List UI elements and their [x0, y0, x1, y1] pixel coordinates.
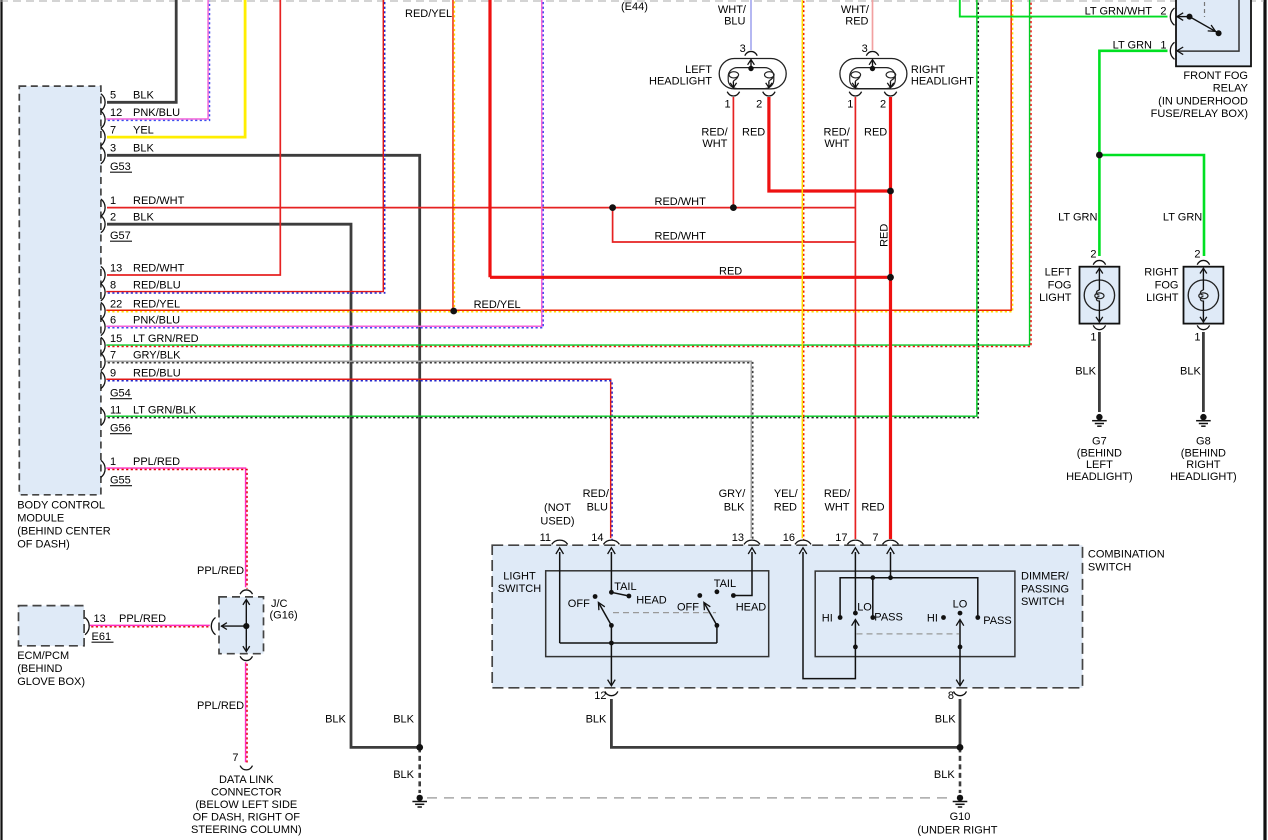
combination switch name labels [498, 549, 1165, 609]
svg-text:RED: RED [774, 502, 797, 514]
svg-text:16: 16 [783, 532, 795, 544]
svg-text:PPL/RED: PPL/RED [197, 565, 244, 577]
light switch arm2 to bottom bus [716, 625, 718, 643]
svg-text:13: 13 [94, 613, 106, 625]
svg-text:3: 3 [740, 43, 746, 55]
svg-text:(BELOW LEFT SIDE: (BELOW LEFT SIDE [195, 799, 297, 811]
wire BCM pin 15 LT GRN/RED [106, 0, 1031, 347]
svg-text:9: 9 [110, 367, 116, 379]
dashed ground bus line [427, 797, 952, 799]
data link connector pin 7 bracket [240, 766, 252, 770]
dimmer pin 8 line [956, 647, 964, 686]
light switch arm1 to bottom bus [610, 625, 612, 643]
left fog light box [1080, 267, 1120, 324]
svg-text:RED/WHT: RED/WHT [133, 262, 185, 274]
relay pin 2 arrow and contact [1177, 13, 1193, 21]
right headlight U2 symbol [840, 59, 907, 89]
ground G8 labels [1170, 436, 1237, 483]
node BLK ground junction right [957, 744, 964, 751]
right headlight U2 pin 2 bracket [884, 92, 896, 96]
page border top dashed [0, 0, 1264, 2]
dimmer pin 16 path to arm1 [803, 552, 855, 679]
wire BCM pin 9 RED/BLU to combination pin 14 [106, 379, 612, 539]
wire left headlight pin 2 RED [769, 97, 891, 191]
svg-text:8: 8 [110, 280, 116, 292]
left headlight U1 pin 3 bracket [745, 51, 757, 55]
front fog relay inner box [1176, 0, 1239, 51]
wire combination pin 8 BLK [959, 699, 962, 747]
svg-text:12: 12 [594, 690, 606, 702]
light switch mechanical linkage dashed [613, 612, 716, 614]
wire combination pin 12 BLK [611, 699, 960, 747]
wire WHT/BLU to left headlight pin 3 [750, 0, 752, 50]
wire BCM pin 6 PNK/BLU [106, 0, 543, 328]
svg-text:COMBINATION: COMBINATION [1088, 549, 1165, 561]
svg-text:22: 22 [110, 298, 122, 310]
svg-text:BLK: BLK [586, 714, 607, 726]
relay labels [1085, 6, 1249, 121]
dimmer PASS1 riser [872, 578, 874, 618]
svg-text:BLK: BLK [393, 714, 414, 726]
wire LT GRN/WHT to relay pin 2 [960, 0, 1168, 17]
PPL/RED wire labels [197, 565, 244, 712]
svg-text:RED/YEL: RED/YEL [405, 8, 452, 20]
svg-text:RED/YEL: RED/YEL [474, 299, 521, 311]
svg-text:6: 6 [110, 314, 116, 326]
svg-text:G7: G7 [1092, 436, 1107, 448]
svg-text:WHT/: WHT/ [841, 4, 870, 16]
svg-text:7: 7 [110, 125, 116, 137]
node RED/WHT junction at x733 [730, 204, 737, 211]
J/C G16 internal bus [221, 600, 250, 652]
svg-text:DIMMER/: DIMMER/ [1021, 571, 1070, 583]
svg-text:PPL/RED: PPL/RED [197, 700, 244, 712]
wire BCM pin 1 RED/WHT to headlights [107, 207, 855, 209]
svg-text:RED: RED [879, 224, 891, 247]
svg-text:1: 1 [847, 99, 853, 111]
svg-text:PPL/RED: PPL/RED [119, 613, 166, 625]
J/C top bracket [240, 590, 252, 594]
svg-text:LT GRN/RED: LT GRN/RED [133, 333, 199, 345]
svg-text:1: 1 [1090, 332, 1096, 344]
J/C left bracket [211, 618, 215, 635]
light switch inner box [546, 571, 769, 657]
right headlight U2 pin 1 bracket [849, 92, 861, 96]
svg-text:TAIL: TAIL [714, 578, 736, 590]
right fog light pin 1 bracket [1197, 325, 1209, 329]
svg-text:RED/: RED/ [583, 488, 610, 500]
left headlight U1 pin 2 bracket [763, 92, 775, 96]
BCM ground reference labels [110, 161, 132, 487]
svg-text:3: 3 [110, 143, 116, 155]
wire RED/WHT branch to dimmer [613, 208, 856, 242]
svg-text:1: 1 [1160, 40, 1166, 52]
ground G10 labels [917, 811, 997, 837]
wire ECM pin 13 PPL/RED to J/C [90, 625, 211, 626]
wire YEL/RED to combination pin 16 [802, 0, 803, 540]
wire BCM pin 13 RED/WHT [107, 0, 280, 275]
node RED/WHT junction at x612 [609, 204, 616, 211]
wire WHT/RED to right headlight pin 3 [872, 0, 874, 50]
svg-text:14: 14 [591, 532, 603, 544]
svg-text:USED): USED) [540, 516, 574, 528]
svg-text:RED: RED [845, 15, 868, 27]
svg-text:YEL: YEL [133, 125, 154, 137]
relay pin 2 bracket [1170, 8, 1174, 25]
svg-text:DATA LINK: DATA LINK [219, 774, 274, 786]
svg-text:OFF: OFF [568, 598, 590, 610]
svg-text:G10: G10 [950, 811, 971, 823]
svg-text:LT GRN: LT GRN [1163, 212, 1202, 224]
svg-text:RED/WHT: RED/WHT [655, 231, 707, 243]
left headlight labels [649, 43, 765, 150]
svg-text:HEADLIGHT: HEADLIGHT [911, 76, 974, 88]
svg-text:2: 2 [880, 99, 886, 111]
svg-text:CONNECTOR: CONNECTOR [211, 786, 282, 798]
wire RED horizontal branch [490, 276, 891, 279]
svg-text:1: 1 [110, 195, 116, 207]
wire left fog light pin 1 BLK [1098, 332, 1101, 412]
right headlight labels [824, 43, 975, 150]
svg-text:RED/BLU: RED/BLU [133, 367, 181, 379]
dashed BLK wire to ground G10 right [959, 747, 962, 793]
wire BCM pin 5 BLK [107, 0, 176, 102]
svg-text:E61: E61 [92, 631, 112, 643]
relay pin 1 arrow [1177, 47, 1183, 55]
svg-text:PASSING: PASSING [1021, 583, 1069, 595]
svg-text:(BEHIND: (BEHIND [1077, 447, 1122, 459]
wire BCM pin 7 GRY/BLK to combination pin 13 [106, 361, 752, 539]
svg-text:BLK: BLK [133, 143, 154, 155]
wire BCM pin 1 PPL/RED to J/C [106, 468, 247, 589]
svg-text:RED/YEL: RED/YEL [133, 298, 180, 310]
svg-text:1: 1 [110, 456, 116, 468]
combination pin 8 bracket [954, 691, 967, 695]
wire BCM pin 3 BLK [107, 155, 420, 747]
svg-text:7: 7 [872, 532, 878, 544]
svg-text:(BEHIND: (BEHIND [1181, 447, 1226, 459]
ECM/PCM labels [17, 613, 166, 688]
svg-text:HI: HI [822, 613, 833, 625]
svg-text:5: 5 [110, 90, 116, 102]
svg-text:RELAY: RELAY [1213, 83, 1249, 95]
fog light wire labels [1058, 212, 1202, 224]
svg-text:FOG: FOG [1155, 279, 1179, 291]
svg-text:BLU: BLU [724, 15, 745, 27]
svg-text:11: 11 [110, 404, 121, 416]
page border right [1263, 0, 1266, 840]
wire LT GRN relay pin 1 to fog lights [1099, 51, 1167, 256]
left fog light pin 1 bracket [1093, 325, 1105, 329]
svg-text:HEAD: HEAD [736, 602, 767, 614]
left fog light bulb symbol [1084, 268, 1114, 323]
wire BCM pin 7 YEL [107, 0, 245, 137]
svg-text:G53: G53 [110, 161, 131, 173]
svg-text:(IN UNDERHOOD: (IN UNDERHOOD [1158, 96, 1248, 108]
svg-text:RED/: RED/ [701, 127, 728, 139]
right fog light bulb symbol [1188, 268, 1218, 323]
light switch TAIL1-HEAD1 link [611, 592, 629, 596]
svg-text:7: 7 [232, 752, 238, 764]
svg-text:RED/WHT: RED/WHT [133, 195, 185, 207]
BCM pin brackets [101, 94, 105, 478]
svg-text:WHT/: WHT/ [718, 4, 747, 16]
svg-text:STEERING COLUMN): STEERING COLUMN) [191, 824, 302, 836]
svg-text:SWITCH: SWITCH [1021, 596, 1064, 608]
svg-text:BLK: BLK [393, 769, 414, 781]
svg-text:LT GRN/WHT: LT GRN/WHT [1085, 6, 1153, 18]
combination switch top pin labels [540, 488, 885, 544]
node RED junction y191 [887, 188, 894, 195]
dimmer arm 2 [956, 620, 964, 647]
wire BCM pin 2 BLK [107, 224, 420, 747]
ground G8 [1200, 414, 1206, 420]
svg-text:(E44): (E44) [621, 1, 648, 13]
node RED/YEL junction [450, 308, 457, 315]
svg-text:RED: RED [861, 502, 884, 514]
svg-text:7: 7 [110, 349, 116, 361]
svg-text:ECM/PCM: ECM/PCM [17, 650, 69, 662]
svg-text:3: 3 [862, 43, 868, 55]
svg-text:GRY/: GRY/ [719, 488, 747, 500]
wire BCM pin 22 RED/YEL [106, 0, 1012, 312]
top wire labels [405, 1, 648, 311]
svg-text:FRONT FOG: FRONT FOG [1183, 70, 1248, 82]
svg-text:SWITCH: SWITCH [1088, 562, 1131, 574]
svg-text:(BEHIND CENTER: (BEHIND CENTER [17, 526, 111, 538]
svg-text:2: 2 [1194, 249, 1200, 261]
light switch pin 13 line to HEAD2 [733, 552, 752, 596]
svg-text:BLK: BLK [133, 90, 154, 102]
ground G10 symbol [957, 795, 963, 801]
wire RED vertical from top [488, 0, 491, 277]
svg-text:RIGHT: RIGHT [1144, 267, 1179, 279]
combination pin 12 bracket [605, 691, 618, 695]
combination switch pin arrows at top [556, 548, 894, 554]
svg-text:G57: G57 [110, 230, 131, 242]
svg-text:2: 2 [1160, 6, 1166, 18]
svg-text:BLU: BLU [587, 502, 608, 514]
svg-text:HEADLIGHT): HEADLIGHT) [1170, 471, 1237, 483]
right fog light pin 2 bracket [1197, 260, 1209, 264]
svg-text:LO: LO [953, 599, 968, 611]
svg-text:RED/: RED/ [824, 127, 851, 139]
svg-text:RED/: RED/ [824, 488, 851, 500]
ground G10 left symbol [417, 795, 423, 801]
left headlight U1 pin 1 bracket [727, 92, 739, 96]
svg-text:FUSE/RELAY BOX): FUSE/RELAY BOX) [1151, 108, 1248, 120]
node LT GRN junction [1096, 152, 1103, 159]
svg-text:LO: LO [857, 602, 872, 614]
wire right headlight pin 2 RED down to combination pin 7 [889, 97, 892, 539]
wire left headlight pin 1 RED/WHT [732, 97, 734, 208]
svg-text:LIGHT: LIGHT [1146, 292, 1179, 304]
svg-text:11: 11 [540, 532, 551, 544]
dimmer pin 17 line to LO1 [854, 552, 856, 613]
svg-text:LT GRN: LT GRN [1113, 40, 1152, 52]
svg-text:1: 1 [1194, 332, 1200, 344]
relay pin 1 bracket [1170, 42, 1174, 59]
svg-text:(G16): (G16) [270, 610, 298, 622]
svg-text:SWITCH: SWITCH [498, 583, 541, 595]
wire BCM pin 12 PNK/BLU [106, 0, 209, 120]
left headlight U1 symbol [719, 59, 786, 89]
wire right fog light pin 1 BLK [1202, 332, 1205, 412]
svg-text:RIGHT: RIGHT [1186, 459, 1221, 471]
svg-text:G55: G55 [110, 475, 131, 487]
svg-text:OF DASH, RIGHT OF: OF DASH, RIGHT OF [193, 812, 301, 824]
svg-text:GLOVE BOX): GLOVE BOX) [17, 676, 85, 688]
right headlight U2 pin 3 bracket [866, 51, 878, 55]
svg-text:HEADLIGHT: HEADLIGHT [649, 76, 712, 88]
ECM/PCM box [19, 606, 85, 646]
svg-text:PNK/BLU: PNK/BLU [133, 107, 180, 119]
right fog light box [1184, 267, 1224, 324]
J/C G16 labels [270, 598, 298, 622]
svg-text:2: 2 [110, 212, 116, 224]
svg-text:8: 8 [948, 690, 954, 702]
light switch arm 2 [704, 602, 717, 625]
svg-text:BLK: BLK [133, 212, 154, 224]
dimmer pin 7 line [890, 552, 892, 578]
J/C bottom bracket [240, 656, 252, 660]
svg-text:WHT: WHT [824, 138, 849, 150]
wire LT GRN branch to right fog light [1099, 155, 1204, 256]
svg-text:12: 12 [110, 107, 122, 119]
right fog light labels [1144, 249, 1201, 378]
svg-text:G8: G8 [1196, 436, 1211, 448]
ECM pin 13 bracket [85, 618, 89, 635]
svg-text:15: 15 [110, 333, 122, 345]
dashed BLK wire to ground left [418, 747, 421, 793]
svg-text:HEAD: HEAD [636, 594, 667, 606]
light switch pin 14 line [610, 552, 612, 592]
svg-text:G54: G54 [110, 388, 131, 400]
svg-text:BLK: BLK [1180, 366, 1201, 378]
BCM description text [17, 500, 111, 551]
dimmer/passing switch inner box [815, 571, 1015, 657]
dimmer arm 1 [852, 620, 860, 647]
dimmer mechanical linkage dashed [857, 633, 960, 635]
svg-text:RED/BLU: RED/BLU [133, 280, 181, 292]
wire BCM pin 11 LT GRN/BLK [106, 0, 978, 418]
light switch position labels [568, 578, 767, 614]
page border left [0, 0, 2, 840]
svg-text:LEFT: LEFT [685, 64, 712, 76]
light switch bottom bus [560, 642, 717, 644]
svg-text:BLK: BLK [1075, 366, 1096, 378]
svg-text:1: 1 [724, 99, 730, 111]
svg-text:FOG: FOG [1048, 279, 1072, 291]
ground G7 labels [1066, 436, 1133, 483]
svg-text:(BEHIND: (BEHIND [17, 663, 62, 675]
light switch contact dots [593, 589, 736, 645]
light switch arm 1 [598, 602, 611, 625]
node RED junction y277 [887, 274, 894, 281]
dimmer switch position labels [822, 599, 1012, 627]
svg-text:HI: HI [927, 613, 938, 625]
svg-text:RED: RED [719, 266, 742, 278]
svg-text:PNK/BLU: PNK/BLU [133, 314, 180, 326]
svg-text:RED: RED [864, 127, 887, 139]
svg-text:2: 2 [1090, 249, 1096, 261]
svg-text:PPL/RED: PPL/RED [133, 456, 180, 468]
svg-text:YEL/: YEL/ [774, 488, 799, 500]
svg-text:RED: RED [742, 127, 765, 139]
svg-text:BLK: BLK [724, 502, 745, 514]
svg-text:(NOT: (NOT [544, 502, 571, 514]
svg-text:LIGHT: LIGHT [503, 571, 536, 583]
svg-text:17: 17 [835, 532, 847, 544]
combination switch pin brackets top [552, 540, 899, 544]
svg-text:G56: G56 [110, 423, 131, 435]
svg-text:WHT: WHT [824, 502, 849, 514]
BCM pin number and wire color labels [110, 90, 199, 469]
ground G7 [1096, 414, 1102, 420]
wire RED/WHT right headlight pin 1 down to combination pin 17 [854, 97, 856, 539]
wire RED/YEL branch vertical [453, 0, 454, 312]
left fog light labels [1039, 249, 1097, 378]
svg-text:WHT: WHT [702, 138, 727, 150]
svg-text:TAIL: TAIL [614, 581, 636, 593]
bottom pin labels [325, 690, 956, 781]
svg-text:RIGHT: RIGHT [911, 64, 946, 76]
dimmer contact dots [838, 575, 981, 649]
svg-text:HEADLIGHT): HEADLIGHT) [1066, 471, 1133, 483]
relay dashed center line [1204, 0, 1206, 17]
svg-text:PASS: PASS [983, 615, 1012, 627]
data link connector labels [191, 752, 302, 836]
svg-text:GRY/BLK: GRY/BLK [133, 349, 181, 361]
front fog relay box [1176, 0, 1251, 66]
node BLK ground junction left [416, 744, 423, 751]
svg-text:LEFT: LEFT [1045, 267, 1072, 279]
svg-text:LIGHT: LIGHT [1039, 292, 1072, 304]
svg-text:LT GRN: LT GRN [1058, 212, 1097, 224]
combination switch box [492, 545, 1082, 688]
svg-text:BLK: BLK [934, 769, 955, 781]
svg-text:LEFT: LEFT [1086, 459, 1113, 471]
svg-text:RED/WHT: RED/WHT [655, 196, 707, 208]
RED/WHT horizontal labels [655, 196, 707, 243]
svg-text:PASS: PASS [874, 611, 903, 623]
svg-text:13: 13 [732, 532, 744, 544]
svg-text:BLK: BLK [935, 714, 956, 726]
svg-text:OF DASH): OF DASH) [17, 539, 70, 551]
svg-text:13: 13 [110, 262, 122, 274]
wire BCM pin 8 RED/BLU [106, 0, 384, 293]
svg-text:LT GRN/BLK: LT GRN/BLK [133, 404, 197, 416]
left fog light pin 2 bracket [1093, 260, 1105, 264]
light switch pin 11 line [559, 552, 561, 643]
svg-text:2: 2 [756, 99, 762, 111]
svg-text:OFF: OFF [677, 602, 699, 614]
svg-text:BODY CONTROL: BODY CONTROL [17, 500, 105, 512]
svg-text:MODULE: MODULE [17, 513, 64, 525]
headlight wire labels [718, 4, 870, 27]
body control module box [19, 86, 101, 495]
svg-text:(UNDER RIGHT: (UNDER RIGHT [917, 825, 997, 837]
junction connector J/C G16 box [219, 597, 264, 654]
light switch pin 12 line [608, 643, 616, 686]
relay movable contact arm [1190, 17, 1222, 37]
svg-text:J/C: J/C [271, 598, 288, 610]
wire PPL/RED J/C to data link connector [246, 662, 247, 763]
svg-text:BLK: BLK [325, 714, 346, 726]
dimmer top bus [840, 578, 978, 618]
